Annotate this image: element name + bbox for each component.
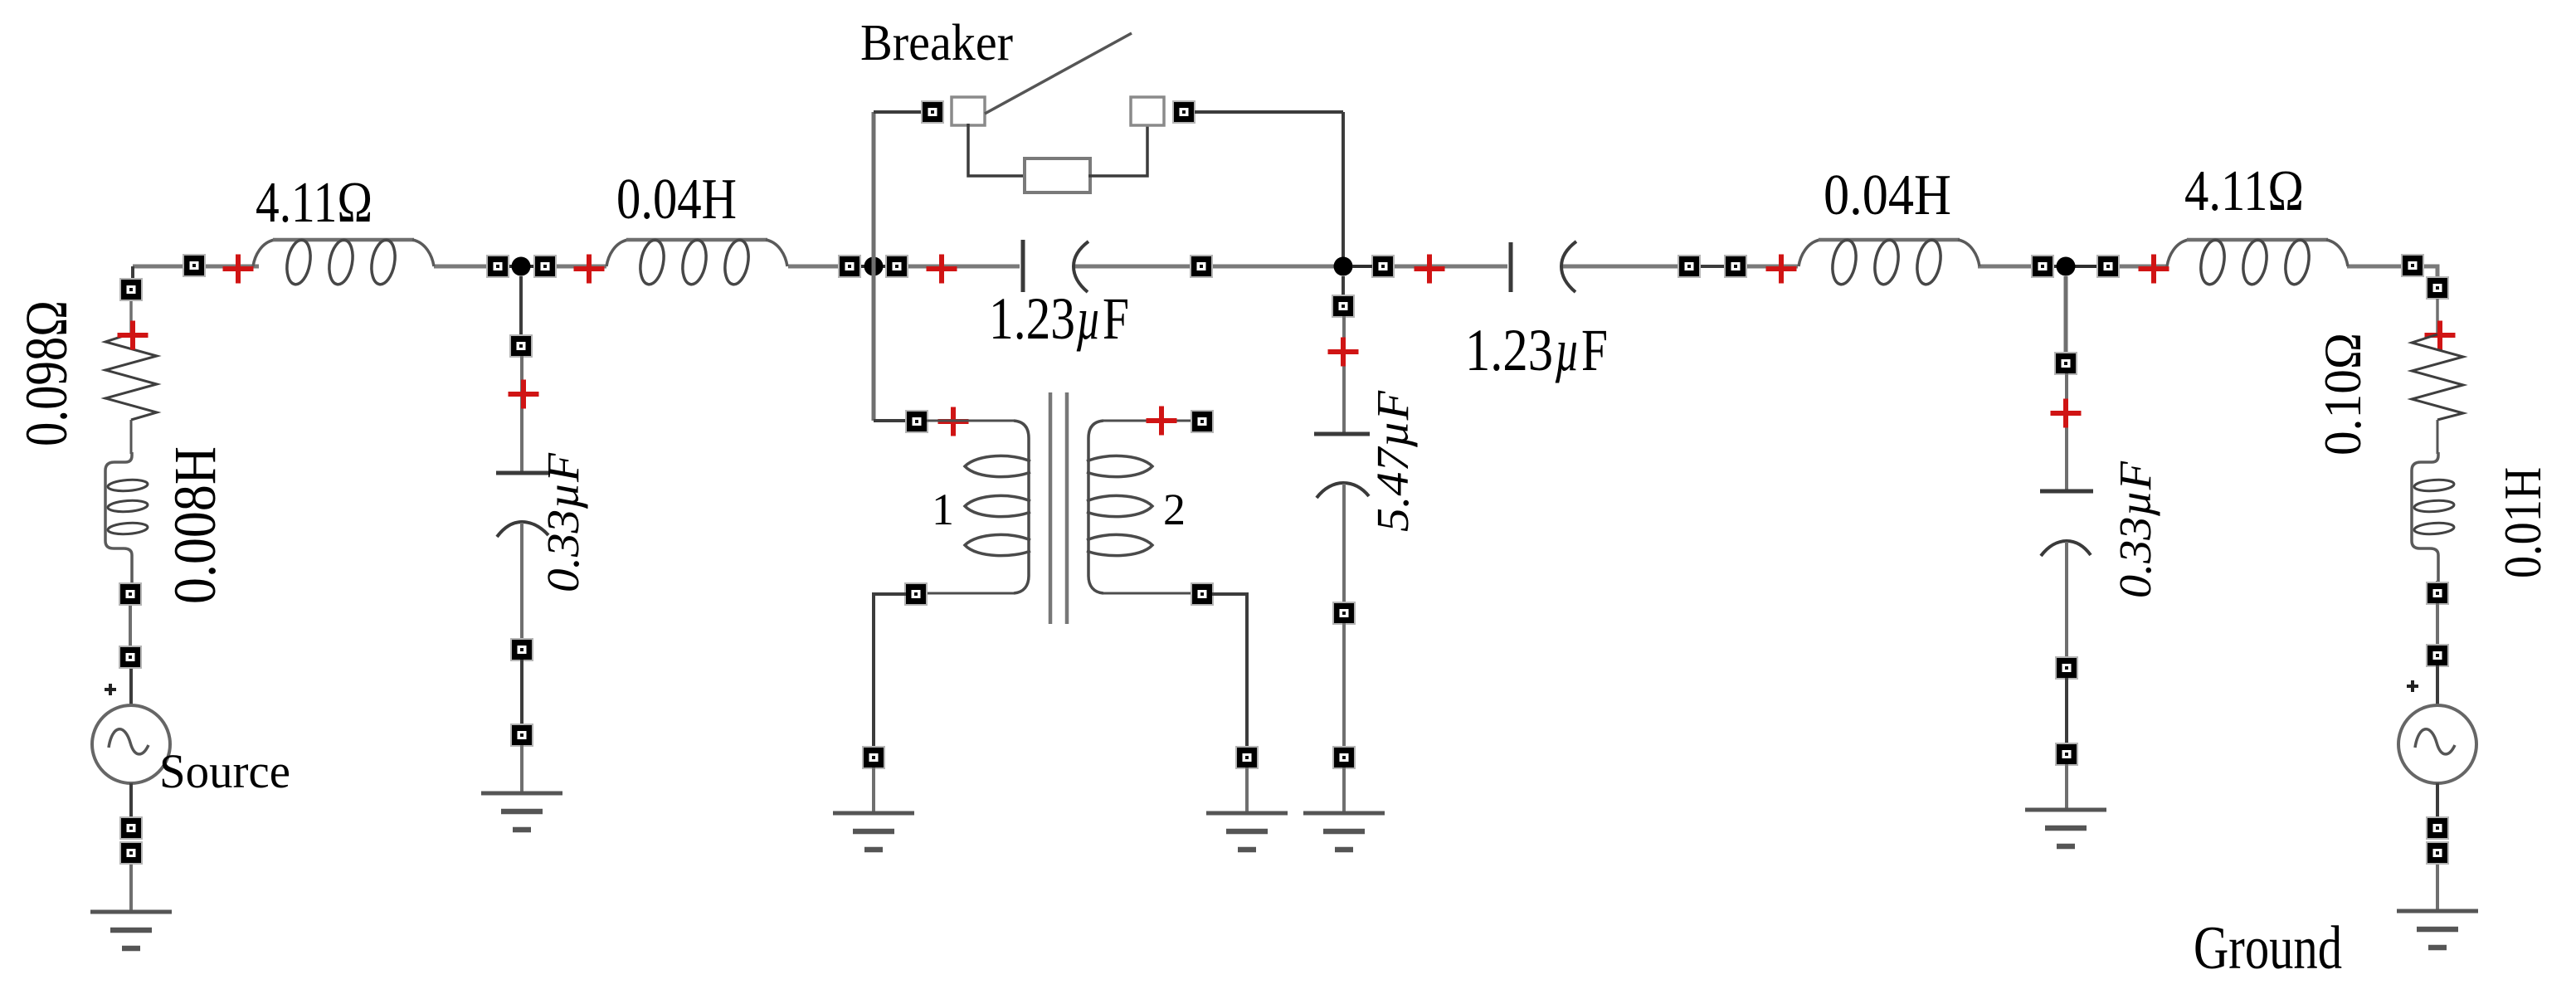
voltmeter plus bus2 [574, 255, 605, 284]
wire terminal to resistor [2436, 299, 2439, 334]
wire between terminals [520, 660, 523, 725]
wire terminal to node N3 [1212, 265, 1342, 269]
svg-text:4.11Ω: 4.11Ω [2184, 159, 2304, 223]
wire 0.33uF (2) down [2065, 542, 2068, 658]
voltmeter plus bus3 [927, 255, 957, 284]
wire N3 link right [1352, 265, 1372, 268]
voltmeter plus 0.33uF [509, 380, 539, 409]
wire node N2 to capacitor 1.23uF left plate [908, 265, 1020, 269]
voltmeter plus bus5 [1766, 255, 1797, 284]
wire N4 down [2064, 276, 2068, 353]
svg-text:0.33µF: 0.33µF [2110, 460, 2160, 598]
terminal square 0.33uF bottom 2 [511, 724, 533, 746]
node N2 links [860, 265, 886, 268]
wire 5.47uF down [1342, 484, 1346, 603]
svg-text:Breaker: Breaker [860, 15, 1013, 71]
svg-text:0.33µF: 0.33µF [538, 452, 588, 592]
wire inductor to source [129, 604, 132, 647]
terminal square pair right [1725, 256, 1746, 277]
breaker wire left box down [968, 124, 1026, 176]
terminal square N2 right [886, 256, 908, 277]
terminal square corner-left vertical [120, 279, 142, 300]
wire riser to primary [874, 419, 906, 422]
terminal square 0.33uF bottom [511, 639, 533, 660]
wire node N4 to 4.11ohm (2) coil [2119, 265, 2167, 269]
terminal square 0.33uF top [510, 335, 532, 357]
wire terminals to ground [129, 863, 133, 911]
ground right source [2397, 911, 2478, 948]
terminal square N2 left [839, 256, 860, 277]
wire corner down [131, 266, 134, 280]
breaker contact box right [1131, 97, 1164, 125]
breaker contact box left [952, 97, 985, 125]
junction dot N2 [864, 257, 884, 276]
terminal square 5.47uF bottom 2 [1333, 747, 1355, 768]
wire node N3 to capacitor 1.23uF (2) left plate [1394, 265, 1507, 269]
secondary winding bottom wire [1103, 592, 1192, 595]
capacitor 1.23uF curved plate [1074, 241, 1088, 292]
terminal square breaker right [1173, 101, 1195, 123]
capacitor 1.23uF (2) plate [1509, 242, 1513, 292]
terminal square N1 left [487, 256, 509, 277]
capacitor 0.33uF (2) curved plate [2041, 541, 2091, 556]
breaker riser right [1342, 112, 1345, 266]
terminal square secondary top [1191, 411, 1213, 432]
wire 4.11ohm coil to node N1 [434, 265, 487, 269]
resistor 4.11ohm (2) coil [2167, 238, 2348, 286]
wire source to terminals [129, 783, 133, 818]
inductor 0.04H (2) coil [1799, 238, 1979, 286]
svg-text:Ground: Ground [2194, 914, 2342, 982]
resistor 0.10ohm zigzag [2412, 334, 2463, 420]
terminal square N1 right [534, 256, 556, 277]
wire capacitor 1.23uF to terminal [1075, 265, 1191, 269]
capacitor 1.23uF plate [1021, 240, 1025, 292]
wire terminal to resistor [129, 300, 133, 334]
wire between terminals [1342, 623, 1346, 748]
svg-text:5.47µF: 5.47µF [1367, 390, 1418, 532]
wire to ground secondary [1245, 767, 1249, 812]
primary winding top wire [927, 420, 1014, 422]
wire to capacitor 5.47uF [1342, 316, 1346, 432]
wire between terminal pair [1700, 265, 1725, 268]
breaker top wire left [874, 110, 922, 114]
capacitor 0.33uF plate [496, 471, 549, 475]
svg-text:1: 1 [932, 485, 954, 534]
terminal square 0.33uF (2) bottom [2056, 657, 2077, 679]
breaker wire rect to right box [1088, 124, 1147, 176]
svg-text:0.04H: 0.04H [1824, 163, 1951, 227]
junction dot N4 [2057, 257, 2076, 276]
svg-text:4.11Ω: 4.11Ω [256, 171, 373, 235]
wire 0.33uF down [520, 523, 523, 640]
wire inductor to terminal [2436, 581, 2439, 583]
transformer primary winding [965, 421, 1030, 593]
voltmeter plus secondary [1147, 407, 1177, 436]
wire to ground [520, 745, 523, 792]
wire between terminals [2436, 603, 2439, 646]
wire to ground [1342, 767, 1346, 812]
voltmeter plus right resistor [2425, 321, 2456, 350]
terminal square secondary ground [1236, 747, 1258, 768]
terminal square primary top [906, 411, 928, 432]
wire 0.04H (2) coil to node N4 [1978, 265, 2032, 269]
junction dot N3 [1334, 257, 1353, 276]
terminal square below source right 2 [2427, 842, 2448, 864]
svg-text:0.098Ω: 0.098Ω [13, 300, 80, 446]
ground 5.47uF [1303, 813, 1385, 850]
terminal square primary ground [863, 747, 884, 768]
capacitor 1.23uF (2) curved plate [1561, 241, 1576, 292]
source polarity mark right [2407, 680, 2418, 692]
wire terminal to 4.11ohm coil [205, 265, 259, 269]
wire N1 down [519, 276, 523, 336]
wire terminal to source circle [129, 667, 133, 705]
node N4 links [2053, 265, 2097, 268]
terminal square N3 right [1372, 256, 1394, 277]
wire to ground [2065, 764, 2068, 809]
terminal square above source right [2427, 582, 2448, 604]
breaker top wire right [1195, 110, 1343, 114]
wire between terminals [2065, 678, 2068, 744]
secondary winding top wire [1103, 420, 1192, 422]
breaker auxiliary rectangle [1025, 158, 1090, 192]
terminal square below source right [2427, 817, 2448, 839]
inductor 0.008H coil [105, 452, 148, 584]
terminal square primary bottom [905, 583, 927, 605]
wire source to terminals [2436, 783, 2439, 818]
resistor 4.11ohm coil [253, 238, 434, 286]
source polarity mark [105, 684, 116, 695]
wire N3 down [1342, 276, 1345, 296]
wire terminal to source circle [2436, 665, 2439, 705]
terminal square 0.33uF (2) top [2055, 353, 2077, 374]
terminal square above source right 2 [2427, 645, 2448, 666]
terminal square pair left [1678, 256, 1700, 277]
inductor 0.04H coil [606, 238, 787, 286]
voltmeter plus bus1 [223, 255, 254, 284]
capacitor 0.33uF (2) plate [2040, 490, 2093, 494]
wire resistor to inductor [2437, 420, 2439, 454]
inductor 0.01H coil [2412, 452, 2454, 584]
svg-text:F: F [1581, 317, 1608, 383]
transformer secondary winding [1087, 421, 1152, 593]
capacitor 0.33uF curved plate [497, 522, 548, 537]
wire primary bottom to ground [874, 594, 906, 748]
capacitor 5.47uF plate [1314, 432, 1370, 436]
voltmeter plus primary [938, 407, 969, 436]
svg-text:1.23: 1.23 [989, 285, 1075, 352]
wire resistor to inductor [130, 420, 133, 454]
svg-text:1.23: 1.23 [1465, 317, 1553, 383]
svg-text:0.04H: 0.04H [616, 168, 737, 231]
resistor 0.098ohm zigzag [105, 334, 157, 420]
terminal square above source 2 [119, 646, 141, 668]
wire right terminal to corner [2423, 266, 2437, 277]
terminal square N4 left [2032, 256, 2053, 277]
wire 0.04H coil to node N2 [788, 265, 839, 269]
wire to ground primary [872, 767, 875, 812]
wire terminals to ground [2436, 863, 2439, 910]
terminal square N4 right [2097, 256, 2119, 277]
voltmeter plus left resistor [118, 321, 149, 350]
voltmeter plus 0.33uF (2) [2051, 399, 2082, 428]
terminal square after cap [1191, 256, 1212, 277]
terminal square 5.47uF bottom [1333, 602, 1355, 624]
terminal square below source 2 [120, 842, 142, 864]
terminal square corner-left horizontal [183, 255, 205, 276]
ground transformer secondary [1206, 813, 1288, 850]
terminal square secondary bottom [1191, 583, 1213, 605]
wire corner-left to terminal [133, 265, 183, 269]
terminal square 0.33uF (2) bottom 2 [2056, 743, 2077, 765]
terminal square corner-right horizontal [2402, 255, 2423, 276]
voltmeter plus bus4 [1415, 255, 1445, 284]
ground 0.33uF left [481, 793, 562, 830]
wire node N1 to 0.04H coil [556, 265, 606, 269]
terminal square 5.47uF top [1332, 295, 1354, 317]
wire terminal pair to 0.04H (2) coil [1744, 265, 1798, 269]
junction dot N1 [512, 257, 531, 276]
wire to capacitor 0.33uF [520, 356, 523, 471]
svg-text:µ: µ [1076, 285, 1101, 352]
source Ground circle [2398, 705, 2476, 783]
ground 0.33uF right [2025, 810, 2106, 846]
ground left source [90, 912, 172, 948]
breaker arm diagonal [985, 33, 1132, 114]
node N1 links [509, 265, 534, 268]
transformer core lines [1050, 392, 1067, 624]
svg-text:2: 2 [1163, 485, 1186, 534]
wire to capacitor 0.33uF (2) [2065, 373, 2068, 490]
primary winding bottom wire [927, 592, 1014, 595]
svg-text:0.10Ω: 0.10Ω [2313, 333, 2372, 456]
wire secondary bottom to ground [1212, 594, 1247, 748]
source Source circle [92, 705, 170, 783]
wire capacitor 1.23uF (2) to terminal pair [1562, 265, 1678, 269]
svg-text:0.008H: 0.008H [162, 446, 228, 604]
breaker riser left [872, 112, 876, 421]
svg-text:Source: Source [159, 744, 290, 798]
svg-text:0.01H: 0.01H [2493, 467, 2552, 578]
svg-text:µ: µ [1555, 317, 1580, 383]
voltmeter plus 5.47uF [1328, 338, 1359, 367]
terminal square below source [120, 817, 142, 839]
wire 4.11ohm (2) coil to right terminal [2347, 265, 2402, 269]
svg-text:F: F [1103, 285, 1129, 352]
ground transformer primary [833, 813, 914, 850]
terminal square above source [119, 583, 141, 605]
voltmeter plus bus6 [2139, 255, 2169, 284]
terminal square corner-right vertical [2427, 277, 2448, 299]
terminal square breaker left [922, 101, 943, 123]
capacitor 5.47uF curved plate [1317, 483, 1369, 498]
